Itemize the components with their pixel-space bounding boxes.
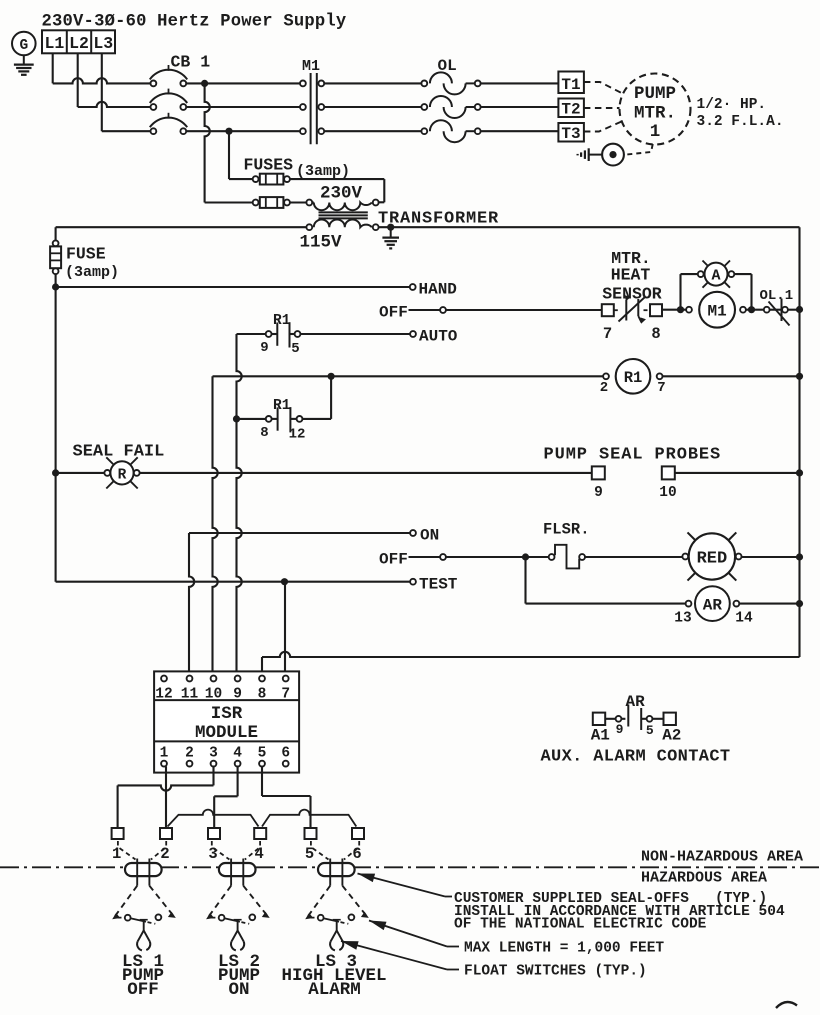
motor ground symbol xyxy=(578,148,589,161)
ground electrode G with ground symbol xyxy=(12,32,36,75)
dashed lead T3 to motor xyxy=(584,122,622,132)
label OFF selector row1 xyxy=(379,304,408,322)
svg-text:230V-3Ø-60 Hertz Power Supply: 230V-3Ø-60 Hertz Power Supply xyxy=(42,13,347,32)
seal-off fitting 1 xyxy=(125,863,162,876)
fuse F1 (3amp) top xyxy=(253,174,290,185)
motor rating text 1/2 HP xyxy=(697,97,767,113)
transformer secondary winding 115V xyxy=(306,219,378,230)
svg-text:7: 7 xyxy=(603,325,612,343)
svg-text:ON: ON xyxy=(420,527,439,545)
svg-text:AR: AR xyxy=(703,597,723,615)
overload contact OL.1 xyxy=(764,299,790,326)
svg-text:ALARM: ALARM xyxy=(308,980,361,1000)
wire L2 to phase 2 xyxy=(77,53,79,107)
fuse F3 control FUSE (3amp) vertical xyxy=(50,227,61,287)
contactor M1 mechanical bars xyxy=(311,73,317,144)
wire L1 to phase 1 xyxy=(52,53,54,83)
wire ammeter branch right down xyxy=(734,274,751,310)
node RED row right rail xyxy=(796,553,803,560)
label PUMP SEAL PROBES xyxy=(544,446,722,465)
motor rating text 3.2 F.L.A. xyxy=(697,114,784,130)
thermal sensor contact 7-8 xyxy=(602,296,662,343)
note customer supplied seal-offs xyxy=(454,891,785,933)
node M1 row right rail xyxy=(796,306,803,313)
seal-off fitting 2 xyxy=(219,863,256,876)
svg-text:PUMP: PUMP xyxy=(634,84,676,104)
note max length xyxy=(464,941,664,957)
svg-text:A1: A1 xyxy=(591,727,610,745)
stray pen mark bottom right xyxy=(776,1002,797,1008)
dashed lead T2 to motor xyxy=(584,107,620,109)
wire fuse1 to transformer primary right xyxy=(290,179,384,202)
svg-text:2: 2 xyxy=(185,746,194,762)
transformer core xyxy=(319,212,368,218)
wire L3 to phase 3 xyxy=(101,53,103,131)
svg-text:R1: R1 xyxy=(273,313,291,329)
svg-text:7: 7 xyxy=(657,380,665,396)
label LS 2 PUMP ON xyxy=(218,952,260,1000)
svg-text:FLSR.: FLSR. xyxy=(543,521,590,539)
wire phase 1 CB to M1 xyxy=(186,82,303,84)
svg-text:MODULE: MODULE xyxy=(195,723,258,743)
ISR bottom terminals 1 2 3 4 5 6 xyxy=(160,746,290,767)
vertical wire TEST to ISR terminal 7 xyxy=(284,582,286,676)
svg-text:T1: T1 xyxy=(561,76,580,94)
terminal TEST stub xyxy=(410,576,458,594)
svg-text:10: 10 xyxy=(659,485,676,501)
wire sensor to M1 coil xyxy=(662,309,686,311)
pump motor 1 circle xyxy=(620,74,691,145)
svg-text:4: 4 xyxy=(233,746,242,762)
left control rail xyxy=(55,287,57,582)
aux alarm contact AR A1-A2 xyxy=(591,705,682,745)
svg-text:12: 12 xyxy=(289,427,306,443)
svg-text:3: 3 xyxy=(208,845,217,863)
wire AR branch down xyxy=(526,557,686,604)
label R1 latch contact xyxy=(273,398,291,414)
probe terminal 9 xyxy=(592,466,605,501)
overload heaters OL label xyxy=(438,57,457,75)
leader arrow to max length note xyxy=(369,921,459,947)
contactor coil M1 xyxy=(686,292,746,328)
wire ISR terminal 4 to field terminal 3 xyxy=(214,767,237,829)
svg-text:(3amp): (3amp) xyxy=(296,163,350,180)
svg-text:5: 5 xyxy=(305,845,314,863)
wire right rail to ISR terminal 8 xyxy=(262,652,800,676)
ammeter A xyxy=(698,261,735,288)
label NON-HAZARDOUS AREA xyxy=(641,849,803,866)
circuit breaker CB 1 label xyxy=(171,53,211,72)
terminal T3 xyxy=(558,123,584,143)
terminal T2 xyxy=(558,99,584,119)
wire phase 3 CB to M1 xyxy=(186,130,303,132)
wire ISR terminal 1 to field terminal 2 xyxy=(165,767,167,829)
svg-text:TRANSFORMER: TRANSFORMER xyxy=(378,210,499,229)
svg-text:T3: T3 xyxy=(561,125,580,143)
svg-text:M1: M1 xyxy=(707,303,726,321)
wire phase1 tap down to fuse 2 row xyxy=(205,83,253,202)
terminal AUTO stub xyxy=(410,328,458,346)
field terminal squares 1-6 xyxy=(112,828,364,863)
svg-text:5: 5 xyxy=(291,341,299,357)
leader arrow to seal-off note xyxy=(358,874,453,897)
svg-text:L1: L1 xyxy=(44,34,64,53)
wire phase 3 OL to T3 xyxy=(481,130,559,132)
wire phase 2 CB to M1 xyxy=(186,106,303,108)
fuses label FUSES (3amp) xyxy=(244,156,351,181)
overload heater OL phase 3 xyxy=(421,120,480,142)
circuit breaker CB1 pole phase 2 xyxy=(150,89,187,110)
hazardous area boundary dash-dot line xyxy=(0,866,820,868)
contactor M1 contact phase 1 xyxy=(300,81,324,87)
flow switch FLSR xyxy=(549,545,585,569)
title: 230V 3-phase 60 Hertz power supply label xyxy=(42,13,347,32)
wire OFF row2 to FLSR xyxy=(446,556,549,558)
svg-text:OF THE NATIONAL ELECTRIC CODE: OF THE NATIONAL ELECTRIC CODE xyxy=(454,917,707,933)
label TRANSFORMER xyxy=(378,210,499,229)
circuit breaker CB1 pole phase 1 xyxy=(150,65,187,86)
svg-text:HAZARDOUS AREA: HAZARDOUS AREA xyxy=(641,870,767,887)
svg-text:2: 2 xyxy=(600,380,608,396)
relay coil R1 2-7 xyxy=(600,359,666,396)
svg-text:MTR.: MTR. xyxy=(634,104,676,124)
wire OL.1 to right rail xyxy=(788,309,800,311)
transformer ground symbol xyxy=(382,227,399,248)
pilot light R seal fail xyxy=(56,457,140,488)
svg-text:9: 9 xyxy=(233,687,242,703)
wire probe 10 to right rail xyxy=(675,472,800,474)
float switch LS3 assembly xyxy=(306,841,368,951)
wire phase 1 M1 to OL xyxy=(324,82,421,84)
svg-text:10: 10 xyxy=(205,687,222,703)
svg-text:13: 13 xyxy=(674,611,691,627)
overload heater OL phase 1 xyxy=(421,72,480,94)
label AR aux contact xyxy=(626,693,646,711)
dashed lead T1 to motor xyxy=(584,82,622,93)
wire ON row xyxy=(189,532,410,534)
svg-text:FUSES: FUSES xyxy=(244,156,294,175)
label HAZARDOUS AREA xyxy=(641,870,767,887)
label OL.1 xyxy=(760,288,794,304)
wire RED to right rail xyxy=(741,556,800,558)
pilot light RED xyxy=(682,532,741,580)
svg-text:R1: R1 xyxy=(624,369,643,387)
wire secondary left to left rail top xyxy=(56,226,307,228)
contact R1 9-5 (auto) xyxy=(260,322,300,357)
leader arrow to float switches note xyxy=(341,941,459,970)
wire phase 2 M1 to OL xyxy=(324,106,421,108)
svg-text:7: 7 xyxy=(281,687,290,703)
terminal OFF stub row1 xyxy=(409,307,446,313)
node OFF row2 AR tap xyxy=(522,553,529,560)
svg-text:AUTO: AUTO xyxy=(419,328,458,346)
svg-text:12: 12 xyxy=(155,687,172,703)
svg-text:RED: RED xyxy=(697,550,728,569)
wire grounding circle to ground xyxy=(589,154,602,156)
wire seal fail row to probe 9 xyxy=(140,472,592,474)
relay coil AR 13-14 xyxy=(674,586,753,626)
float switch LS1 assembly xyxy=(113,841,175,951)
svg-text:G: G xyxy=(19,38,28,54)
svg-text:2: 2 xyxy=(160,845,169,863)
wire field terminal 1 to ISR terminal 3 xyxy=(118,767,214,829)
label OFF selector row2 xyxy=(379,551,408,569)
svg-text:9: 9 xyxy=(260,340,268,356)
wire phase 2 OL to T2 xyxy=(481,106,559,108)
svg-text:1: 1 xyxy=(650,122,661,142)
svg-text:OFF: OFF xyxy=(127,980,159,1000)
label 230V xyxy=(320,184,363,204)
svg-text:(3amp): (3amp) xyxy=(65,264,119,281)
wire R1 coil row xyxy=(213,375,800,377)
svg-text:8: 8 xyxy=(258,687,267,703)
node left rail HAND tap xyxy=(52,283,59,290)
svg-text:4: 4 xyxy=(255,845,264,863)
node transformer ground junction xyxy=(387,224,394,231)
wire secondary right to right rail top xyxy=(379,226,800,228)
wire phase 1 line with hops over L2 L3 xyxy=(53,78,151,83)
svg-text:MAX LENGTH = 1,000 FEET: MAX LENGTH = 1,000 FEET xyxy=(464,941,664,957)
node AR row right rail xyxy=(796,600,803,607)
overload heater OL phase 2 xyxy=(421,96,480,118)
dashed wire motor to grounding circle xyxy=(626,144,653,155)
vertical wire R1 coil row to ISR terminal 10 xyxy=(213,376,218,675)
svg-text:6: 6 xyxy=(281,746,290,762)
svg-text:9: 9 xyxy=(616,722,624,737)
label R1 auto contact xyxy=(273,313,291,329)
svg-text:FUSE: FUSE xyxy=(66,245,106,264)
wire HAND row xyxy=(56,286,410,288)
node left rail seal fail tap xyxy=(52,469,59,476)
wire phase 1 OL to T1 xyxy=(481,82,559,84)
wire ammeter branch left up xyxy=(681,274,698,310)
svg-text:230V: 230V xyxy=(320,184,363,204)
node phase 3 junction xyxy=(225,128,232,135)
label LS 3 HIGH LEVEL ALARM xyxy=(281,952,386,1000)
svg-text:5: 5 xyxy=(646,723,654,738)
ISR module box xyxy=(154,671,299,772)
wire phase 3 line xyxy=(102,130,151,132)
svg-text:R: R xyxy=(118,468,127,484)
motor grounding circle xyxy=(602,144,624,166)
svg-text:1: 1 xyxy=(160,746,169,762)
wire fuse2 to transformer primary left xyxy=(290,201,307,203)
node R1 row to 8-12 branch xyxy=(328,373,335,380)
contactor M1 label xyxy=(302,58,320,75)
svg-text:PUMP SEAL PROBES: PUMP SEAL PROBES xyxy=(544,446,722,465)
svg-text:A: A xyxy=(711,268,720,285)
node ammeter branch right xyxy=(748,306,755,313)
svg-text:SEAL FAIL: SEAL FAIL xyxy=(73,443,165,462)
svg-text:OFF: OFF xyxy=(379,551,408,569)
vertical wire ON to ISR terminal 11 xyxy=(189,533,194,676)
svg-text:14: 14 xyxy=(735,611,753,627)
node ammeter branch left xyxy=(677,306,684,313)
svg-text:FLOAT SWITCHES (TYP.): FLOAT SWITCHES (TYP.) xyxy=(464,964,647,980)
terminal T1 xyxy=(558,72,584,95)
svg-text:SENSOR: SENSOR xyxy=(602,285,662,304)
svg-text:3.2 F.L.A.: 3.2 F.L.A. xyxy=(697,114,784,130)
svg-text:AUX. ALARM CONTACT: AUX. ALARM CONTACT xyxy=(541,748,731,767)
vertical wire AUTO to ISR terminal 9 xyxy=(237,334,242,676)
ISR top terminals 12 11 10 9 8 7 xyxy=(155,676,290,703)
svg-text:OFF: OFF xyxy=(379,304,408,322)
fuse F2 (3amp) bottom xyxy=(253,197,290,208)
svg-text:M1: M1 xyxy=(302,58,320,75)
transformer primary winding 230V xyxy=(306,200,378,211)
wire TEST row xyxy=(56,581,410,583)
seal-off fitting 3 xyxy=(318,863,355,876)
terminal ON stub xyxy=(410,527,439,545)
terminal OFF stub row2 xyxy=(409,554,446,560)
svg-text:OL.1: OL.1 xyxy=(760,288,794,304)
wire M1 coil to OL.1 xyxy=(746,309,764,311)
terminal HAND stub xyxy=(410,281,457,299)
svg-text:CB 1: CB 1 xyxy=(171,53,211,72)
label MTR. HEAT SENSOR xyxy=(602,249,662,304)
svg-text:9: 9 xyxy=(594,485,603,501)
svg-text:L2: L2 xyxy=(69,34,89,53)
label FUSE (3amp) xyxy=(65,245,119,282)
svg-text:ISR: ISR xyxy=(211,704,243,724)
label 115V xyxy=(300,233,343,253)
node R1 latch tap on auto wire xyxy=(233,415,240,422)
wire AUTO row xyxy=(237,333,410,335)
svg-text:HAND: HAND xyxy=(419,281,457,299)
svg-text:NON-HAZARDOUS AREA: NON-HAZARDOUS AREA xyxy=(641,849,803,866)
label FLSR. xyxy=(543,521,590,539)
label SEAL FAIL xyxy=(73,443,165,462)
wire FLSR to RED light xyxy=(585,556,684,558)
right control rail xyxy=(798,227,800,657)
svg-text:A2: A2 xyxy=(662,727,681,745)
wire ISR terminal 5 to field terminal 5 xyxy=(262,767,311,829)
node phase 1 junction xyxy=(201,80,208,87)
svg-text:TEST: TEST xyxy=(419,576,458,594)
svg-text:T2: T2 xyxy=(561,101,580,119)
wire OFF row to heat sensor xyxy=(446,309,602,311)
svg-text:HEAT: HEAT xyxy=(611,266,651,285)
label AUX. ALARM CONTACT xyxy=(541,748,731,767)
contactor M1 contact phase 3 xyxy=(300,128,324,134)
circuit breaker CB1 pole phase 3 xyxy=(150,113,187,134)
probe terminal 10 xyxy=(659,466,676,501)
svg-text:8: 8 xyxy=(651,325,660,343)
svg-text:115V: 115V xyxy=(300,233,343,253)
wire phase 2 line with hop over L3 xyxy=(78,102,151,107)
svg-text:3: 3 xyxy=(209,746,218,762)
node TEST to ISR terminal 7 tap xyxy=(281,578,288,585)
node R1 coil row right rail xyxy=(796,373,803,380)
terminal block L1 L2 L3 xyxy=(42,30,115,53)
label LS 1 PUMP OFF xyxy=(122,952,164,1000)
svg-text:1/2· HP.: 1/2· HP. xyxy=(697,97,767,113)
wire AR to right rail xyxy=(739,603,799,605)
svg-text:L3: L3 xyxy=(93,34,113,53)
contact R1 8-12 (latch) xyxy=(260,407,305,442)
svg-text:R1: R1 xyxy=(273,398,291,414)
note float switches xyxy=(464,964,647,980)
node seal row right rail xyxy=(796,469,803,476)
svg-text:11: 11 xyxy=(181,687,199,703)
svg-text:5: 5 xyxy=(258,746,267,762)
svg-text:8: 8 xyxy=(260,425,268,441)
float switch LS2 assembly xyxy=(207,841,269,951)
wire phase 3 M1 to OL xyxy=(324,130,421,132)
wire common bus field terminals 2 4 xyxy=(168,810,357,827)
wire latch branch xyxy=(237,376,332,419)
svg-text:ON: ON xyxy=(228,980,249,1000)
contactor M1 contact phase 2 xyxy=(300,104,324,110)
wire phase3 tap down to fuse 1 row xyxy=(229,131,253,179)
